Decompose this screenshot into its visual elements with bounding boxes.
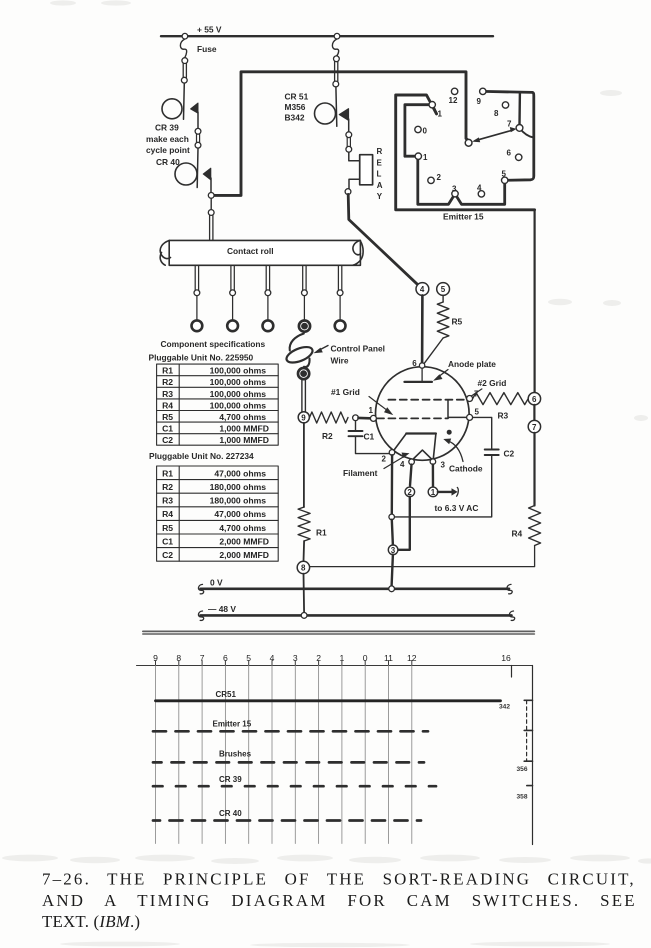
ruler tick marks xyxy=(156,661,412,666)
svg-text:1,000 MMFD: 1,000 MMFD xyxy=(219,424,269,434)
svg-text:0 V: 0 V xyxy=(210,578,223,588)
svg-text:Y: Y xyxy=(377,192,383,201)
resistor R5 xyxy=(442,295,444,302)
svg-text:7–26. THE PRINCIPLE OF THE SOR: 7–26. THE PRINCIPLE OF THE SORT-READING … xyxy=(42,869,636,888)
svg-text:C2: C2 xyxy=(504,449,515,459)
svg-text:4: 4 xyxy=(420,285,425,294)
wire: thick loop from CR40 junction up and over to emitter hub xyxy=(214,72,468,196)
table: pluggable unit 225950 xyxy=(157,364,279,445)
right bracket ticks and dashed spans xyxy=(524,700,532,785)
svg-text:R2: R2 xyxy=(322,431,333,441)
contact roll body xyxy=(169,240,360,265)
svg-text:CR 39: CR 39 xyxy=(155,123,179,133)
CR40 moving contact line xyxy=(196,148,199,187)
wire: junction down to terminal 3 xyxy=(392,520,393,545)
AC plug arrow xyxy=(452,488,458,495)
-48V rail xyxy=(201,614,512,617)
svg-text:Fuse: Fuse xyxy=(197,44,217,54)
svg-text:#1 Grid: #1 Grid xyxy=(331,387,360,397)
svg-text:6: 6 xyxy=(507,149,512,158)
vacuum tube V1 envelope xyxy=(376,367,470,461)
svg-text:Wire: Wire xyxy=(331,355,349,365)
svg-text:4,700 ohms: 4,700 ohms xyxy=(219,523,266,533)
transfer point circle xyxy=(208,210,214,216)
lower filled hub xyxy=(298,368,309,379)
terminal 5 xyxy=(437,283,450,296)
wire: R4 down and across to terminal 8 xyxy=(310,546,535,567)
curve from terminal 7 to right side xyxy=(519,128,533,138)
wire: junction to pin 1 (thick) xyxy=(358,417,370,420)
svg-text:342: 342 xyxy=(499,704,510,711)
svg-text:4: 4 xyxy=(400,460,405,469)
relay K1 coil box xyxy=(360,155,373,185)
emitter crown connecting path xyxy=(405,91,534,204)
svg-text:cycle point: cycle point xyxy=(146,145,190,155)
svg-text:TEXT. (IBM.): TEXT. (IBM.) xyxy=(42,912,140,931)
rotor double-headed arrow xyxy=(475,130,513,141)
terminal 6 xyxy=(528,393,540,405)
svg-text:Emitter 15: Emitter 15 xyxy=(213,720,252,729)
svg-text:#2 Grid: #2 Grid xyxy=(478,378,507,388)
wire: terminal 8 to -48V rail xyxy=(303,574,306,613)
#1 grid dashed line xyxy=(377,417,448,419)
junction circle below CR40 xyxy=(208,193,214,199)
CR39 fixed contact flag xyxy=(191,103,198,113)
svg-text:R3: R3 xyxy=(498,411,509,421)
svg-text:3: 3 xyxy=(441,461,446,470)
svg-text:Pluggable Unit No. 225950: Pluggable Unit No. 225950 xyxy=(149,352,254,362)
resistor R4 xyxy=(529,506,541,546)
svg-text:— 48 V: — 48 V xyxy=(208,604,236,614)
transfer point circle xyxy=(334,56,340,62)
wire: terminal 2 down to terminal 3 xyxy=(398,497,410,550)
junction circle (R2/C1/grid) xyxy=(353,415,359,421)
junction on +55V rail at CR51 branch xyxy=(334,33,340,39)
svg-text:356: 356 xyxy=(517,766,528,773)
svg-text:R4: R4 xyxy=(512,529,523,539)
pin 2 circle xyxy=(389,450,395,456)
wire: 6 to 7 xyxy=(533,405,535,421)
CR51 moving contact line xyxy=(335,87,338,126)
resistor R3 xyxy=(473,393,529,405)
svg-text:2,000 MMFD: 2,000 MMFD xyxy=(219,550,269,560)
svg-text:R3: R3 xyxy=(162,496,173,506)
wire: fuse squiggle from rail xyxy=(180,39,186,58)
plug double-bar xyxy=(347,137,350,146)
svg-text:to 6.3 V AC: to 6.3 V AC xyxy=(435,503,479,513)
svg-text:6: 6 xyxy=(412,359,417,368)
svg-text:A: A xyxy=(377,181,383,190)
svg-text:+ 55 V: + 55 V xyxy=(197,25,222,35)
CR40 fixed contact flag xyxy=(203,168,211,180)
svg-text:47,000 ohms: 47,000 ohms xyxy=(214,509,266,519)
terminal 3 xyxy=(388,545,398,555)
contact roll right end curl xyxy=(353,240,363,265)
terminal 7 xyxy=(528,420,540,432)
svg-text:R: R xyxy=(377,147,383,156)
pin 7 circle xyxy=(467,396,473,402)
terminal 1 xyxy=(428,487,438,497)
transfer point circle xyxy=(346,146,352,152)
svg-text:Contact roll: Contact roll xyxy=(227,246,274,256)
svg-text:Cathode: Cathode xyxy=(449,464,483,474)
anode plate bar xyxy=(421,368,423,381)
svg-text:1: 1 xyxy=(369,406,374,415)
control panel wire pigtail xyxy=(290,334,304,351)
tick at 16 xyxy=(511,666,513,678)
emitter terminal circles xyxy=(451,88,457,94)
gas-filled dot xyxy=(447,430,452,435)
terminal 4 xyxy=(416,283,429,296)
0V rail xyxy=(201,587,510,590)
resistor R2 xyxy=(310,412,349,423)
capacitor C1 xyxy=(355,421,357,430)
svg-text:CR 40: CR 40 xyxy=(219,809,242,818)
svg-text:AND A TIMING DIAGRAM FOR CAM S: AND A TIMING DIAGRAM FOR CAM SWITCHES. S… xyxy=(42,891,637,910)
svg-text:1: 1 xyxy=(423,153,428,162)
svg-text:0: 0 xyxy=(423,126,428,135)
svg-text:Component specifications: Component specifications xyxy=(161,339,266,349)
svg-text:make each: make each xyxy=(146,134,189,144)
brush 3 xyxy=(266,265,269,290)
svg-text:R5: R5 xyxy=(162,412,173,422)
pin 3 circle xyxy=(430,459,436,465)
transfer point circle xyxy=(195,142,201,148)
transfer point circle xyxy=(182,58,188,64)
svg-text:5: 5 xyxy=(475,407,480,416)
svg-text:L: L xyxy=(377,170,382,179)
plug double-bar xyxy=(197,134,200,143)
timing diagram ruler xyxy=(137,665,533,667)
cathode bar and legs xyxy=(406,432,436,434)
svg-text:R1: R1 xyxy=(162,468,173,478)
svg-text:8: 8 xyxy=(494,109,499,118)
svg-text:7: 7 xyxy=(532,423,537,432)
wire: CR51 squiggle xyxy=(332,39,338,56)
svg-text:R5: R5 xyxy=(162,523,173,533)
cam contact CR51 circle xyxy=(315,103,336,124)
emitter 15 outer wire loop xyxy=(396,95,535,210)
filament V xyxy=(412,450,432,460)
svg-text:R2: R2 xyxy=(162,377,173,387)
svg-text:R4: R4 xyxy=(162,509,173,519)
svg-text:12: 12 xyxy=(449,96,458,105)
separator bar xyxy=(143,630,534,632)
svg-text:180,000 ohms: 180,000 ohms xyxy=(210,482,267,492)
right vertical edge xyxy=(532,666,534,845)
wire: into relay coil top xyxy=(349,152,360,161)
svg-text:R3: R3 xyxy=(162,389,173,399)
pin 4 circle xyxy=(409,459,415,465)
svg-text:R1: R1 xyxy=(162,366,173,376)
wire: pin 2 down (thick) xyxy=(391,455,394,514)
svg-text:Pluggable Unit No. 227234: Pluggable Unit No. 227234 xyxy=(149,451,254,461)
timing grid verticals xyxy=(156,666,412,844)
table: pluggable unit 227234 xyxy=(157,466,279,561)
svg-text:5: 5 xyxy=(502,170,507,179)
svg-text:2: 2 xyxy=(382,455,387,464)
svg-text:3: 3 xyxy=(452,184,457,193)
cam contact CR40 circle xyxy=(175,163,197,185)
terminal 8 xyxy=(297,561,309,573)
cam contact CR39 circle xyxy=(162,99,182,119)
svg-text:Anode plate: Anode plate xyxy=(448,359,496,369)
transfer point circle xyxy=(345,189,351,195)
svg-text:100,000 ohms: 100,000 ohms xyxy=(210,400,267,410)
svg-text:9: 9 xyxy=(477,97,482,106)
pin 1 circle xyxy=(370,415,376,421)
emitter terminal 7 drop wire xyxy=(518,93,521,125)
pin 5 circle xyxy=(467,414,473,420)
svg-text:1,000 MMFD: 1,000 MMFD xyxy=(219,435,269,445)
svg-text:C2: C2 xyxy=(162,550,173,560)
svg-text:CR 51: CR 51 xyxy=(285,92,309,102)
svg-text:Filament: Filament xyxy=(343,468,378,478)
svg-text:8: 8 xyxy=(301,564,306,573)
svg-text:CR51: CR51 xyxy=(216,690,237,699)
svg-text:C1: C1 xyxy=(162,536,173,546)
#2 grid dashed line xyxy=(388,399,466,401)
svg-text:47,000 ohms: 47,000 ohms xyxy=(214,468,266,478)
emitter hub circle xyxy=(465,139,472,146)
brush 4 (selected, filled hub) xyxy=(303,265,306,290)
svg-text:M356: M356 xyxy=(285,102,306,112)
right bus: emitter down to terminal 6 xyxy=(533,211,535,392)
svg-text:CR 39: CR 39 xyxy=(219,775,242,784)
wire: CR40 flag down to junction xyxy=(210,178,212,193)
svg-text:B342: B342 xyxy=(285,113,305,123)
wire: hub down to terminal 9 (double line) xyxy=(302,380,306,412)
CR39 moving contact line xyxy=(183,83,186,119)
svg-text:358: 358 xyxy=(517,794,528,801)
wire: terminal 3 to 0V rail xyxy=(392,555,393,586)
svg-text:R5: R5 xyxy=(452,317,463,327)
junction on +55V rail at fuse xyxy=(182,33,188,39)
CR51 fixed contact flag xyxy=(339,109,348,121)
svg-text:1: 1 xyxy=(431,488,436,497)
transfer point circle xyxy=(195,128,201,134)
svg-text:4: 4 xyxy=(477,184,482,193)
svg-text:Brushes: Brushes xyxy=(219,750,252,759)
wire: terminal 9 column down to R1 xyxy=(303,423,305,507)
junction circle on 0V rail xyxy=(389,586,395,592)
svg-text:100,000 ohms: 100,000 ohms xyxy=(210,366,267,376)
svg-text:C1: C1 xyxy=(364,432,375,442)
wire: 7 down to R4 xyxy=(533,433,535,506)
svg-text:100,000 ohms: 100,000 ohms xyxy=(210,377,267,387)
terminal 9 xyxy=(298,412,309,423)
svg-text:180,000 ohms: 180,000 ohms xyxy=(210,496,267,506)
svg-text:100,000 ohms: 100,000 ohms xyxy=(210,389,267,399)
svg-text:C1: C1 xyxy=(162,424,173,434)
wire: flag down to relay xyxy=(348,119,350,132)
svg-text:9: 9 xyxy=(301,414,306,423)
svg-text:2,000 MMFD: 2,000 MMFD xyxy=(219,536,269,546)
svg-text:R1: R1 xyxy=(316,528,327,538)
svg-text:R2: R2 xyxy=(162,482,173,492)
junction circle C2 return xyxy=(389,514,395,520)
svg-text:R4: R4 xyxy=(162,400,173,410)
svg-text:5: 5 xyxy=(441,285,446,294)
transfer point circle xyxy=(333,81,339,87)
junction circle on -48V rail xyxy=(301,613,307,619)
wire: terminal 4 to anode pin 6 (thick) xyxy=(421,295,424,362)
resistor R1 xyxy=(298,507,310,541)
transfer point circle xyxy=(181,77,187,83)
wire: pin 3 to terminal 1 (thick) xyxy=(432,464,435,487)
plug double-bar crossing top loop xyxy=(335,62,338,82)
svg-text:4,700 ohms: 4,700 ohms xyxy=(219,412,266,422)
wire: R1 to terminal 8 xyxy=(303,541,306,561)
fuse plug double-bar xyxy=(183,63,186,77)
transfer point circle xyxy=(346,132,352,138)
svg-text:6: 6 xyxy=(532,395,537,404)
grid2/pin5 step xyxy=(448,400,466,418)
svg-text:Control Panel: Control Panel xyxy=(331,343,385,353)
wire: relay coil bottom out xyxy=(349,179,360,189)
svg-text:Emitter 15: Emitter 15 xyxy=(443,212,484,222)
wire: CR39 flag to CR40 xyxy=(197,112,199,129)
svg-text:1: 1 xyxy=(438,110,443,119)
wire: junction to brush stem xyxy=(210,198,212,209)
contact roll left end curl xyxy=(160,240,170,265)
wire: pin 4 to terminal 2 (thick) xyxy=(410,465,412,486)
svg-text:E: E xyxy=(377,158,383,167)
wire: +55V supply rail xyxy=(161,35,493,37)
brush holder double line into contact roll xyxy=(210,215,213,240)
wire: terminal 1 to AC plug xyxy=(438,491,452,493)
svg-text:CR 40: CR 40 xyxy=(156,157,180,167)
svg-text:7: 7 xyxy=(507,120,512,129)
brush 1 xyxy=(195,265,198,290)
svg-text:16: 16 xyxy=(501,653,511,663)
brush 2 xyxy=(231,265,234,290)
brush 5 xyxy=(338,265,341,290)
capacitor C2 xyxy=(473,417,492,449)
ruler numbers xyxy=(153,653,511,663)
terminal 2 xyxy=(405,487,415,497)
wire: relay to terminal 4 (thick diagonal) xyxy=(348,194,418,284)
svg-text:C2: C2 xyxy=(162,435,173,445)
pin 6 circle xyxy=(419,363,424,368)
svg-text:2: 2 xyxy=(437,173,442,182)
